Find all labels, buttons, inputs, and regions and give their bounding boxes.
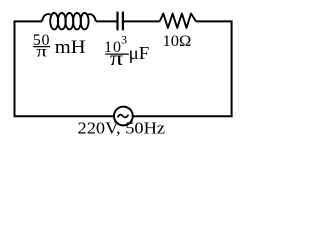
- AC source V1: [114, 107, 133, 126]
- svg-text:3: 3: [121, 33, 127, 47]
- svg-text:220V, 50Hz: 220V, 50Hz: [78, 119, 166, 138]
- svg-text:10Ω: 10Ω: [163, 33, 192, 50]
- svg-text:mH: mH: [55, 37, 86, 58]
- inductor L1: [42, 13, 96, 29]
- capacitor C1: [118, 12, 123, 31]
- resistor R1: [160, 14, 196, 28]
- wire: top-left segment, left side, bottom-left segment: [15, 21, 114, 116]
- svg-text:μF: μF: [129, 43, 150, 63]
- capacitor value label 10^3/pi uF: [104, 33, 149, 71]
- svg-text:π: π: [110, 48, 123, 70]
- wire: top-right segment, right side, bottom-right segment: [133, 21, 232, 116]
- svg-text:π: π: [36, 44, 47, 61]
- wire: inductor to capacitor: [96, 20, 117, 22]
- inductor value label 50/pi mH: [33, 32, 86, 61]
- wire: capacitor to resistor: [124, 20, 160, 22]
